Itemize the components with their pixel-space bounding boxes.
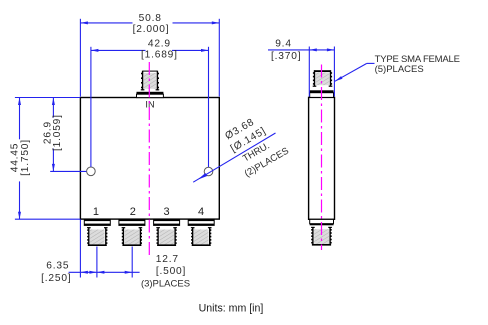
svg-text:IN: IN xyxy=(145,100,154,110)
svg-text:[1.689]: [1.689] xyxy=(141,49,178,60)
svg-text:2: 2 xyxy=(130,206,136,218)
svg-text:42.9: 42.9 xyxy=(148,38,171,49)
svg-text:6.35: 6.35 xyxy=(46,261,69,272)
svg-text:1: 1 xyxy=(93,206,99,218)
svg-text:50.8: 50.8 xyxy=(139,13,162,24)
svg-text:[1.059]: [1.059] xyxy=(52,114,63,151)
svg-text:12.7: 12.7 xyxy=(156,254,179,265)
svg-text:(5)PLACES: (5)PLACES xyxy=(375,64,424,75)
svg-text:Units: mm [in]: Units: mm [in] xyxy=(199,303,264,315)
svg-text:[1.750]: [1.750] xyxy=(20,139,31,176)
svg-text:(3)PLACES: (3)PLACES xyxy=(141,279,190,290)
svg-text:[.370]: [.370] xyxy=(271,51,301,62)
svg-text:9.4: 9.4 xyxy=(275,38,292,49)
svg-text:[.250]: [.250] xyxy=(41,273,71,284)
svg-text:3: 3 xyxy=(164,206,170,218)
svg-text:[.500]: [.500] xyxy=(156,266,186,277)
svg-text:[2.000]: [2.000] xyxy=(133,24,170,35)
svg-text:4: 4 xyxy=(198,206,204,218)
